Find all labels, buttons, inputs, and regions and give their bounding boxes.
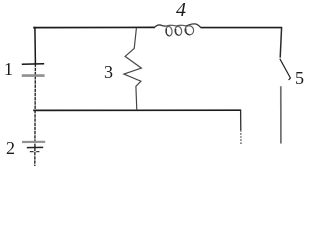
label 3 (104, 63, 113, 81)
wire top rail right segment (201, 27, 283, 29)
label 2 (6, 139, 15, 157)
ground 2 bottom marks (30, 151, 40, 153)
capacitor 1 top plate (22, 63, 44, 65)
resistor 3 (124, 28, 141, 110)
wire left vertical (34, 27, 37, 64)
ground 2 middle plate (27, 146, 43, 148)
wire top rail left segment (33, 26, 155, 28)
inductor 4 (154, 24, 201, 36)
label 5 (295, 69, 304, 87)
label 4 (176, 0, 186, 20)
ground 2 top plate (22, 141, 45, 143)
wire right stub of bottom rail (240, 110, 242, 130)
wire right vertical upper (280, 27, 281, 57)
capacitor 1 bottom plate (22, 74, 45, 77)
switch 5 blade (280, 59, 291, 80)
wire right vertical lower (280, 86, 282, 143)
label 1 (4, 60, 13, 78)
wire bottom rail (33, 109, 241, 111)
